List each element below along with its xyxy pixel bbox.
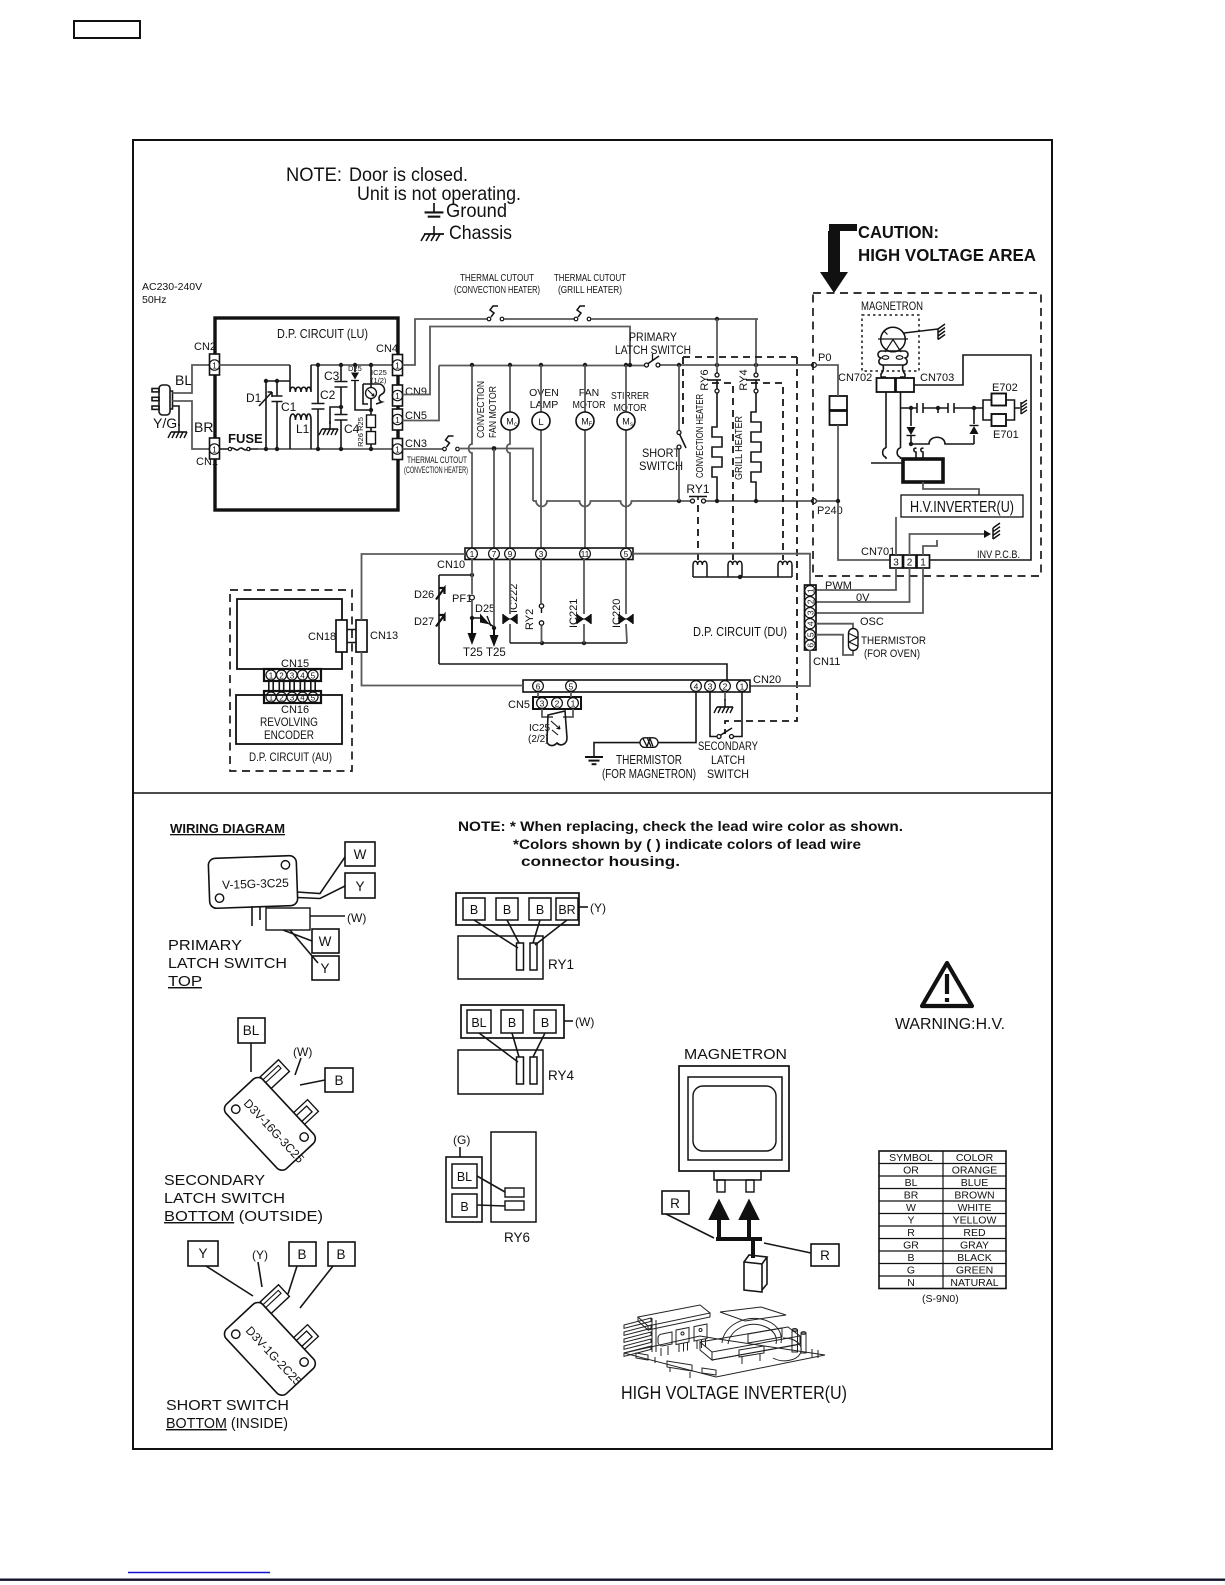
wire CN701-3 up xyxy=(895,517,897,555)
svg-text:T25: T25 xyxy=(463,647,483,659)
svg-text:D.P. CIRCUIT (AU): D.P. CIRCUIT (AU) xyxy=(249,750,332,764)
wire thermistor to CN20 pin4 xyxy=(658,692,696,743)
svg-text:2: 2 xyxy=(805,599,815,604)
svg-text:THERMAL CUTOUT: THERMAL CUTOUT xyxy=(460,273,534,284)
svg-text:RED: RED xyxy=(963,1227,986,1239)
svg-text:BL: BL xyxy=(243,1023,260,1038)
svg-text:PF1: PF1 xyxy=(452,593,472,605)
convection heater branch vertical xyxy=(716,319,718,373)
svg-text:WHITE: WHITE xyxy=(958,1202,992,1214)
RY1 coil dashed link xyxy=(697,505,699,560)
wire BR to CN1 xyxy=(173,401,211,449)
svg-text:MOTOR: MOTOR xyxy=(573,399,606,411)
svg-text:D26: D26 xyxy=(414,589,434,601)
svg-text:H.V.INVERTER(U): H.V.INVERTER(U) xyxy=(910,499,1014,516)
choke verticals xyxy=(290,365,311,449)
connector 3d box xyxy=(744,1255,767,1292)
wire CN10 to CN11 xyxy=(633,554,810,585)
svg-text:M: M xyxy=(581,417,589,427)
svg-text:Y: Y xyxy=(907,1215,914,1227)
svg-text:LATCH SWITCH: LATCH SWITCH xyxy=(168,956,287,972)
svg-text:D25: D25 xyxy=(475,603,495,615)
svg-text:(FOR MAGNETRON): (FOR MAGNETRON) xyxy=(602,767,696,781)
svg-text:BL: BL xyxy=(175,372,192,388)
revolving encoder box xyxy=(236,695,342,744)
CN5(LU) wire to lower bus xyxy=(403,366,440,421)
fuse symbol xyxy=(220,448,259,450)
svg-text:FAN: FAN xyxy=(579,387,599,399)
Y/G chassis ground xyxy=(173,406,180,426)
svg-text:BLUE: BLUE xyxy=(961,1177,988,1189)
svg-text:HIGH VOLTAGE AREA: HIGH VOLTAGE AREA xyxy=(858,245,1036,265)
svg-text:(W): (W) xyxy=(347,911,366,925)
HV transformer windings xyxy=(883,448,901,457)
svg-text:(FOR OVEN): (FOR OVEN) xyxy=(864,648,920,660)
connector CN11 xyxy=(805,585,817,650)
svg-text:REVOLVING: REVOLVING xyxy=(260,715,318,729)
svg-text:RY1: RY1 xyxy=(686,482,709,496)
svg-text:L: L xyxy=(538,417,543,428)
svg-text:4: 4 xyxy=(694,682,699,692)
svg-text:B: B xyxy=(508,1016,516,1030)
svg-text:B: B xyxy=(334,1073,343,1088)
svg-text:1: 1 xyxy=(395,415,400,425)
svg-text:THERMISTOR: THERMISTOR xyxy=(861,635,926,647)
door linkage dashed top xyxy=(683,356,797,358)
svg-text:THERMISTOR: THERMISTOR xyxy=(616,753,682,767)
vertical drop pin1 xyxy=(469,366,472,549)
wire bracket to CN20 pin2 xyxy=(439,664,727,680)
svg-text:4: 4 xyxy=(300,671,305,680)
svg-text:F: F xyxy=(589,422,593,428)
svg-text:LATCH SWITCH: LATCH SWITCH xyxy=(615,345,691,357)
svg-text:2: 2 xyxy=(907,558,913,569)
svg-text:B: B xyxy=(503,903,511,917)
svg-text:Y/G: Y/G xyxy=(153,415,177,431)
svg-text:T25: T25 xyxy=(486,647,506,659)
svg-text:2: 2 xyxy=(279,671,284,680)
connector strip CN16 xyxy=(264,691,321,703)
W box lower xyxy=(312,929,339,953)
wire thermistor to ground xyxy=(594,743,640,748)
relay coil RY4 xyxy=(778,561,792,577)
RY1 connector housing xyxy=(456,893,579,925)
svg-text:CN18: CN18 xyxy=(308,631,336,643)
svg-text:B: B xyxy=(336,1247,345,1262)
high voltage area dashed box xyxy=(813,293,1041,576)
left bracket wire D26/D27 xyxy=(439,575,472,664)
W box top xyxy=(345,842,375,866)
svg-text:BL: BL xyxy=(471,1016,486,1030)
svg-text:R: R xyxy=(820,1248,830,1263)
svg-text:1: 1 xyxy=(269,671,274,680)
svg-text:(GRILL HEATER): (GRILL HEATER) xyxy=(558,285,622,296)
svg-text:3: 3 xyxy=(708,682,713,692)
svg-text:GRILL HEATER: GRILL HEATER xyxy=(733,416,745,480)
svg-text:(CONVECTION HEATER): (CONVECTION HEATER) xyxy=(404,465,468,476)
svg-text:OR: OR xyxy=(903,1165,919,1177)
svg-text:L1: L1 xyxy=(296,422,310,436)
svg-text:B: B xyxy=(536,903,544,917)
connector strip CN15 xyxy=(264,669,321,681)
svg-text:(W): (W) xyxy=(293,1045,312,1059)
svg-text:CN5: CN5 xyxy=(508,699,530,711)
svg-text:Chassis: Chassis xyxy=(449,222,512,244)
svg-text:CN702: CN702 xyxy=(838,372,872,384)
svg-text:BLACK: BLACK xyxy=(957,1252,991,1264)
HV diode 2 xyxy=(973,408,975,444)
svg-text:B: B xyxy=(470,903,478,917)
svg-text:CN2: CN2 xyxy=(194,341,216,353)
svg-text:1: 1 xyxy=(395,391,400,401)
svg-text:3: 3 xyxy=(290,671,295,680)
HV diode 1 xyxy=(910,408,912,444)
RY6 coil dashed link xyxy=(712,383,733,560)
CN18-CN13 links xyxy=(347,630,356,643)
svg-text:2: 2 xyxy=(555,699,560,709)
svg-text:CN703: CN703 xyxy=(920,372,954,384)
svg-text:MAGNETRON: MAGNETRON xyxy=(861,301,923,313)
svg-text:s: s xyxy=(630,422,633,428)
chassis legend symbol xyxy=(421,226,444,241)
wire P0 to CN702 xyxy=(817,365,839,396)
svg-text:B: B xyxy=(907,1252,914,1264)
svg-text:6: 6 xyxy=(536,682,541,692)
svg-text:3: 3 xyxy=(805,610,815,615)
magnetron ground xyxy=(904,329,938,333)
coil common wire xyxy=(693,576,792,578)
svg-text:V-15G-3C25: V-15G-3C25 xyxy=(222,876,289,892)
svg-text:THERMAL CUTOUT: THERMAL CUTOUT xyxy=(554,273,626,284)
wire CN9 to primary latch bus xyxy=(403,327,631,395)
ground legend symbol xyxy=(425,203,444,217)
wire CN13 to CN20 xyxy=(362,652,524,686)
svg-text:B: B xyxy=(541,1016,549,1030)
thermal cutout grill symbol xyxy=(574,306,591,321)
wire BL to CN2 xyxy=(173,365,211,393)
svg-text:M: M xyxy=(622,417,630,427)
CN3 wire and thermal cutout symbol xyxy=(403,448,444,450)
H.V.INVERTER(U) label box xyxy=(901,495,1023,517)
magnetron neck xyxy=(881,365,905,377)
arc bump xyxy=(911,437,974,444)
svg-text:LATCH: LATCH xyxy=(711,753,745,767)
E702/E701 terminal cluster xyxy=(983,400,992,420)
svg-text:9: 9 xyxy=(508,549,513,559)
wire cutout2 to heater branches xyxy=(591,318,758,320)
RY4 connector housing xyxy=(461,1005,564,1038)
magnetron lead arrows xyxy=(712,1203,727,1240)
thermistor (for magnetron) symbol xyxy=(640,738,658,748)
RY6 plug housing xyxy=(446,1157,482,1222)
svg-text:NOTE:: NOTE: xyxy=(286,164,342,186)
svg-text:HIGH VOLTAGE INVERTER(U): HIGH VOLTAGE INVERTER(U) xyxy=(621,1383,847,1403)
svg-text:STIRRER: STIRRER xyxy=(611,390,649,402)
svg-text:INV P.C.B.: INV P.C.B. xyxy=(977,549,1020,561)
svg-text:GR: GR xyxy=(903,1240,919,1252)
lower bus P240 row xyxy=(533,501,691,507)
svg-text:NATURAL: NATURAL xyxy=(950,1277,998,1289)
svg-text:CN13: CN13 xyxy=(370,630,398,642)
RY1 lead lines xyxy=(474,920,567,948)
svg-text:3: 3 xyxy=(893,558,899,569)
footer blue underline xyxy=(128,1572,270,1574)
HV secondary line with capacitors xyxy=(901,407,983,409)
svg-text:CAUTION:: CAUTION: xyxy=(858,222,939,242)
svg-text:Y: Y xyxy=(320,961,329,976)
svg-text:7: 7 xyxy=(492,549,497,559)
wire CN13 to CN10 xyxy=(362,554,466,620)
short switch leads xyxy=(206,1262,333,1308)
svg-text:SHORT: SHORT xyxy=(642,446,681,460)
magnetron connector blocks xyxy=(877,378,896,392)
svg-text:D.P. CIRCUIT (LU): D.P. CIRCUIT (LU) xyxy=(277,326,368,341)
svg-text:1: 1 xyxy=(740,682,745,692)
RY4 coil dashed link xyxy=(751,383,783,560)
svg-text:SECONDARY: SECONDARY xyxy=(698,739,758,753)
svg-text:*Colors shown by ( ) indicate: *Colors shown by ( ) indicate colors of … xyxy=(513,836,861,852)
PWM wire xyxy=(816,568,896,590)
svg-text:3: 3 xyxy=(540,699,545,709)
svg-text:5: 5 xyxy=(624,549,629,559)
primary latch switch symbol xyxy=(645,363,649,367)
choke coil top xyxy=(290,384,311,392)
svg-text:ORANGE: ORANGE xyxy=(952,1165,998,1177)
T25 arrow 1 xyxy=(470,616,474,620)
svg-text:BR: BR xyxy=(904,1190,919,1202)
svg-text:1: 1 xyxy=(470,549,475,559)
C3/C4 chassis tap xyxy=(330,407,341,424)
primary latch switch body V-15G-3C25 xyxy=(208,855,298,908)
inverter PCB outline xyxy=(914,355,1031,560)
svg-text:OSC: OSC xyxy=(860,616,884,628)
short switch B boxes xyxy=(289,1242,316,1266)
wire CN11 pin6 to CN20 xyxy=(750,650,810,686)
wires under core to label box xyxy=(923,482,979,495)
svg-text:1: 1 xyxy=(571,699,576,709)
svg-text:NOTE: * When replacing, check: NOTE: * When replacing, check the lead w… xyxy=(458,818,903,834)
svg-text:E702: E702 xyxy=(992,382,1018,394)
choke coil bottom (L1) xyxy=(290,414,311,424)
svg-text:c: c xyxy=(514,422,517,428)
CN20/CN5 links xyxy=(538,692,571,697)
svg-text:Y: Y xyxy=(198,1246,207,1261)
B box xyxy=(325,1068,353,1092)
svg-text:BOTTOM (INSIDE): BOTTOM (INSIDE) xyxy=(166,1416,288,1432)
svg-text:BL: BL xyxy=(457,1170,472,1184)
svg-text:CN20: CN20 xyxy=(753,674,781,686)
wire cutout1 to cutout2 xyxy=(504,318,574,320)
RY6 relay body xyxy=(491,1132,536,1222)
ferrite core block xyxy=(903,459,943,482)
svg-text:C2: C2 xyxy=(320,388,336,402)
svg-text:N: N xyxy=(907,1277,915,1289)
short switch body D3V-1G-2C25 xyxy=(222,1283,338,1400)
svg-text:5: 5 xyxy=(569,682,574,692)
svg-text:1: 1 xyxy=(805,588,815,593)
svg-text:D27: D27 xyxy=(414,616,434,628)
node P0 xyxy=(812,363,817,368)
top bus inside LU xyxy=(220,364,291,366)
svg-text:50Hz: 50Hz xyxy=(142,294,167,306)
svg-text:FAN MOTOR: FAN MOTOR xyxy=(487,386,499,438)
wire CN702 to CN701 xyxy=(838,425,890,560)
svg-text:SYMBOL: SYMBOL xyxy=(889,1152,933,1164)
svg-text:WIRING DIAGRAM: WIRING DIAGRAM xyxy=(170,821,285,836)
svg-text:BOTTOM (OUTSIDE): BOTTOM (OUTSIDE) xyxy=(164,1209,323,1225)
wire P240 joins xyxy=(817,500,839,502)
R box right xyxy=(811,1244,839,1266)
svg-text:PRIMARY: PRIMARY xyxy=(168,938,242,954)
svg-text:SWITCH: SWITCH xyxy=(707,767,749,781)
svg-text:ENCODER: ENCODER xyxy=(264,728,314,742)
grill heater branch vertical xyxy=(755,319,757,373)
wire CN4 up to cutout bus xyxy=(403,319,488,365)
OSC wire xyxy=(816,568,923,613)
vertical drop pin7 xyxy=(493,449,495,548)
svg-text:SWITCH: SWITCH xyxy=(639,459,683,473)
svg-text:BR: BR xyxy=(194,419,213,435)
Y box top xyxy=(345,873,375,898)
svg-text:SECONDARY: SECONDARY xyxy=(164,1173,265,1189)
svg-text:D.P. CIRCUIT (DU): D.P. CIRCUIT (DU) xyxy=(693,624,787,639)
svg-text:connector housing.: connector housing. xyxy=(521,853,680,869)
svg-text:3: 3 xyxy=(539,549,544,559)
switch terminal tab xyxy=(252,906,260,926)
bottom bus inside LU xyxy=(258,448,397,450)
triac bottom bus xyxy=(510,642,627,644)
svg-text:1: 1 xyxy=(212,361,217,371)
secondary latch BL box xyxy=(238,1018,265,1043)
svg-text:11: 11 xyxy=(581,549,590,559)
svg-text:OVEN: OVEN xyxy=(529,387,559,399)
svg-text:BR: BR xyxy=(558,903,575,917)
section divider xyxy=(133,792,1052,794)
wire pin1 up xyxy=(923,540,937,555)
svg-text:1: 1 xyxy=(920,558,926,569)
svg-text:Y: Y xyxy=(355,879,364,894)
magnetron filament bulges xyxy=(878,351,908,365)
magnetron dotted box xyxy=(862,315,919,371)
svg-text:6: 6 xyxy=(805,643,815,648)
svg-text:BL: BL xyxy=(905,1177,918,1189)
svg-text:W: W xyxy=(354,847,367,862)
svg-text:RY1: RY1 xyxy=(548,957,574,972)
svg-text:TOP: TOP xyxy=(168,974,202,990)
RY4 relay body xyxy=(458,1050,543,1094)
svg-text:R26: R26 xyxy=(356,433,365,447)
door linkage dashed right to secondary latch xyxy=(725,357,797,734)
magnetron symbol xyxy=(881,327,906,352)
svg-text:M: M xyxy=(506,417,514,427)
svg-text:PWM: PWM xyxy=(825,580,852,592)
svg-text:B: B xyxy=(460,1200,468,1214)
D.P. CIRCUIT (LU) box xyxy=(215,318,398,510)
svg-text:5: 5 xyxy=(805,632,815,637)
wire pin2 to inverter ground xyxy=(910,534,985,555)
svg-text:(G): (G) xyxy=(453,1133,470,1147)
RY4 lead lines xyxy=(479,1033,545,1062)
Y box lower xyxy=(312,956,339,980)
secondary latch switch body D3V-16G-3C25 xyxy=(222,1058,341,1177)
svg-text:Ground: Ground xyxy=(446,200,507,222)
thick lead wire xyxy=(716,1239,762,1258)
thermal cutout convection symbol xyxy=(487,306,504,321)
svg-text:RY4: RY4 xyxy=(548,1068,575,1083)
svg-text:CONVECTION HEATER: CONVECTION HEATER xyxy=(694,394,706,478)
svg-text:CN11: CN11 xyxy=(813,656,840,668)
CN702 connector blocks xyxy=(830,396,848,410)
svg-text:AC230-240V: AC230-240V xyxy=(142,281,202,293)
magnetron neck xyxy=(714,1171,761,1180)
thermistor for oven wiring xyxy=(816,624,853,629)
short switch Y box xyxy=(188,1241,218,1266)
svg-text:W: W xyxy=(319,934,332,949)
svg-text:D1: D1 xyxy=(246,391,262,405)
secondary latch switch wiring xyxy=(710,692,742,737)
svg-text:4: 4 xyxy=(805,621,815,626)
svg-text:WARNING:H.V.: WARNING:H.V. xyxy=(895,1016,1005,1033)
key unit box xyxy=(237,599,342,669)
svg-text:0V: 0V xyxy=(856,592,870,604)
D.P. CIRCUIT (AU) dashed box xyxy=(230,590,352,771)
svg-text:PRIMARY: PRIMARY xyxy=(629,332,677,344)
svg-text:(W): (W) xyxy=(575,1015,594,1029)
warning triangle xyxy=(922,963,972,1006)
svg-text:1: 1 xyxy=(395,445,400,455)
svg-text:R: R xyxy=(670,1196,680,1211)
svg-text:(Y): (Y) xyxy=(590,901,606,915)
svg-text:FUSE: FUSE xyxy=(228,431,263,446)
caution arrow xyxy=(820,224,857,293)
svg-text:5: 5 xyxy=(311,671,316,680)
svg-text:RY2: RY2 xyxy=(524,609,536,630)
relay coil RY6 xyxy=(728,561,742,577)
svg-text:COLOR: COLOR xyxy=(956,1152,994,1164)
svg-text:P0: P0 xyxy=(818,352,831,364)
svg-text:W: W xyxy=(906,1202,916,1214)
svg-text:(Y): (Y) xyxy=(252,1248,268,1262)
svg-text:IC220: IC220 xyxy=(611,599,623,628)
T25 arrow 2 xyxy=(493,559,495,628)
svg-text:E701: E701 xyxy=(993,429,1019,441)
door linkage dashed left to short switch xyxy=(682,357,684,429)
node P240 xyxy=(812,499,817,504)
svg-text:LATCH SWITCH: LATCH SWITCH xyxy=(164,1191,285,1207)
RY1 relay body xyxy=(458,936,543,979)
svg-text:CN9: CN9 xyxy=(405,386,427,398)
svg-text:R: R xyxy=(907,1227,915,1239)
footer page rule xyxy=(0,1579,1225,1581)
svg-text:R25: R25 xyxy=(356,417,365,431)
R box left xyxy=(662,1191,689,1214)
svg-text:1: 1 xyxy=(212,445,217,455)
svg-text:(2/2): (2/2) xyxy=(528,734,549,745)
svg-text:GREEN: GREEN xyxy=(956,1265,993,1277)
svg-text:RY6: RY6 xyxy=(504,1230,530,1245)
svg-text:SHORT SWITCH: SHORT SWITCH xyxy=(166,1398,289,1414)
0V wire xyxy=(816,568,910,602)
svg-text:CN10: CN10 xyxy=(437,559,465,571)
connector CN701 xyxy=(890,555,903,568)
svg-text:LAMP: LAMP xyxy=(530,399,559,411)
svg-text:BROWN: BROWN xyxy=(954,1190,994,1202)
CN15-CN16 link wires xyxy=(269,681,315,691)
svg-text:CONVECTION: CONVECTION xyxy=(475,381,487,438)
svg-text:IC221: IC221 xyxy=(568,599,580,628)
svg-text:2: 2 xyxy=(723,682,728,692)
D1/C1 top link xyxy=(266,380,290,382)
